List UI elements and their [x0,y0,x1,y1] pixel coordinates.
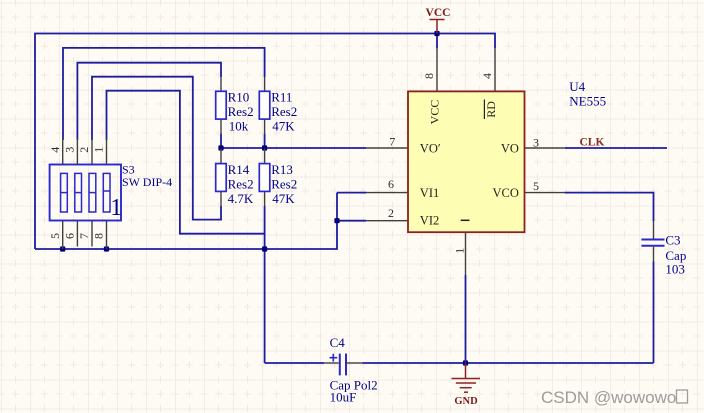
svg-text:R10: R10 [228,90,250,105]
svg-text:5: 5 [48,233,62,239]
wire 555 pin2 [337,220,366,222]
svg-text:CLK: CLK [580,136,605,148]
svg-text:GND: GND [454,396,478,407]
svg-text:VI2: VI2 [420,214,439,228]
svg-text:NE555: NE555 [569,94,606,109]
wire 555 pin1 to GND rail [465,275,467,363]
ground symbol GND [452,363,481,392]
IC U4 NE555 pin leads [366,48,565,275]
junction GND [463,360,468,365]
svg-text:VCC: VCC [426,7,451,19]
resistor R13 [259,164,270,192]
switch S3 slider 2 [75,173,82,212]
wire bottom GND rail left of C4 [265,362,324,364]
svg-text:VO: VO [501,141,519,155]
junction R10 node [218,145,223,150]
svg-text:7: 7 [77,233,91,239]
wire DIP bottom rail [35,193,337,249]
wire R11 bottom stub [264,134,266,148]
svg-text:C4: C4 [330,335,346,350]
switch S3 pins top [63,138,107,164]
capacitor C3 leads [653,221,655,262]
svg-text:7: 7 [389,135,395,149]
wire discharge node R10 R14 to 555 pin7 [221,147,366,149]
svg-text:10uF: 10uF [330,390,357,405]
C4 plus sign [330,354,338,362]
svg-text:4.7K: 4.7K [228,191,254,206]
svg-text:47K: 47K [272,191,295,206]
switch S3 body [50,165,121,221]
svg-text:8: 8 [92,233,106,239]
wire DIP pin3 to R10 top [77,63,221,140]
svg-text:8: 8 [422,73,436,79]
svg-text:C3: C3 [665,233,680,248]
IC U4 NE555 body [408,91,525,232]
pin name 1 rotated (dash) [461,219,470,221]
junction rail drop [262,246,267,251]
svg-text:1: 1 [92,147,106,153]
svg-text:3: 3 [533,136,539,150]
resistor R11 [259,91,270,119]
power symbol VCC [430,20,445,34]
wire R10 bottom stub [220,134,222,148]
svg-text:5: 5 [533,179,539,193]
junction rail pin5 [60,246,65,251]
wire 555 pin6 [337,192,366,194]
switch S3 slider 1 [61,173,68,212]
svg-text:6: 6 [388,177,394,191]
junction pin2 [334,218,339,223]
svg-text:VO′: VO′ [420,141,441,155]
svg-text:VI1: VI1 [420,186,439,200]
svg-text:Res2: Res2 [228,104,254,119]
switch S3 slider 3 [89,173,96,212]
svg-text:CSDN @wowowo: CSDN @wowowo [541,388,676,407]
svg-text:1: 1 [110,195,122,221]
wire 555 pin5 VCO to C3 [565,193,654,221]
capacitor C4 plates [340,354,346,376]
junction rail pin8 [104,246,109,251]
svg-text:3: 3 [63,147,77,153]
resistor R11 leads [264,77,266,134]
svg-text:2: 2 [388,206,394,220]
wire DIP pin2 to R14 bottom [92,77,221,220]
svg-text:R13: R13 [271,162,293,177]
capacitor C3 plates [641,240,664,246]
svg-text:R11: R11 [271,90,292,105]
svg-text:6: 6 [63,233,77,239]
wire DIP pin1 to R13 bottom [107,91,265,234]
junction R11 node [262,145,267,150]
svg-text:RD: RD [484,101,498,118]
capacitor C4 leads [324,362,363,364]
resistor R10 leads [220,77,222,134]
svg-text:SW DIP-4: SW DIP-4 [122,175,172,189]
svg-text:4: 4 [48,147,62,153]
svg-text:10k: 10k [229,119,249,134]
svg-text:4: 4 [480,73,494,79]
wire C3 bottom to GND rail [653,262,655,364]
wire CLK from 555 pin3 [565,147,667,149]
wire DIP pin4 to R11 top [63,48,265,140]
resistor R14 [216,164,227,192]
svg-text:47K: 47K [272,119,295,134]
resistor R10 [216,91,227,119]
wire VCC net top rail [35,34,495,250]
svg-text:R14: R14 [228,162,250,177]
resistor R14 leads [220,149,222,207]
svg-text:103: 103 [665,261,685,276]
wire bottom GND rail right of C4 [363,362,654,364]
svg-text:VCO: VCO [492,186,518,200]
svg-text:Res2: Res2 [271,104,297,119]
switch S3 slider 4 [103,173,110,212]
svg-text:U4: U4 [569,79,585,94]
switch S3 pins bottom [63,221,107,249]
svg-text:Res2: Res2 [271,176,297,191]
wire R13 bottom down to C4 net [264,206,266,363]
svg-text:1: 1 [452,248,466,254]
svg-text:2: 2 [77,147,91,153]
resistor R13 leads [264,149,266,207]
svg-text:VCC: VCC [428,100,442,125]
wire pin8 stub [436,34,438,49]
svg-text:Res2: Res2 [228,176,254,191]
junction VCC [434,31,439,36]
